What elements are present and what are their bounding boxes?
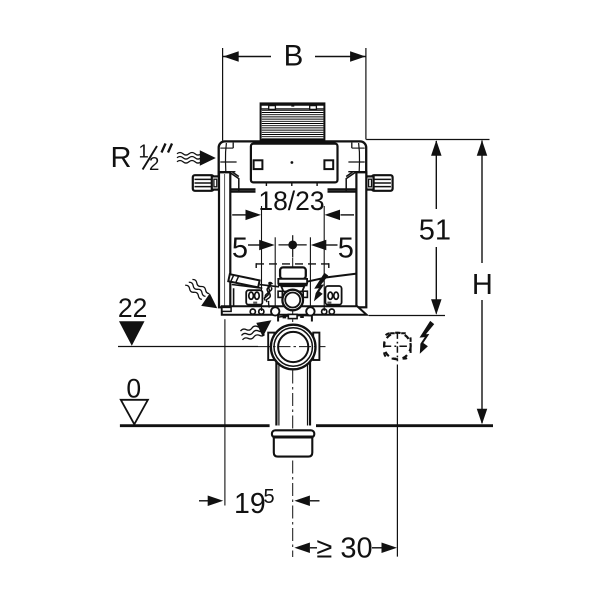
fill valve supply arm	[228, 274, 259, 287]
protection box striped body	[261, 103, 325, 140]
dimension B line and arrowheads	[223, 51, 366, 62]
service panel center dot	[291, 161, 294, 164]
svg-text:51: 51	[419, 214, 451, 246]
frame bottom rail	[222, 306, 367, 314]
mechanism shelf left	[232, 285, 279, 307]
dimension 18/23 right arrow	[325, 210, 355, 221]
service panel screw square left	[254, 160, 263, 169]
flush valve flange	[278, 279, 308, 285]
cistern head corner wedge left	[229, 172, 239, 191]
dimension 19.5 arrows	[199, 496, 320, 507]
dimension 5 right arrow	[311, 240, 338, 251]
extension line 19.5 left (wall)	[224, 319, 226, 505]
service panel bottom ticks	[266, 183, 317, 187]
main centerline	[292, 258, 294, 557]
level marker 0 triangle	[121, 400, 148, 425]
cistern head shoulder right	[348, 171, 365, 173]
svg-text:H: H	[472, 269, 493, 301]
wavy arrow to flush pipe	[241, 320, 272, 340]
label 18/23	[256, 186, 328, 216]
svg-text:1: 1	[139, 141, 149, 162]
flush valve side wing left	[278, 291, 282, 297]
flush pipe walls	[276, 361, 310, 426]
label R 1/2 inch	[111, 141, 173, 175]
label 19 superscript 5	[234, 486, 275, 520]
svg-text:≥ 30: ≥ 30	[316, 533, 372, 565]
electrical conduit dashed circle	[384, 332, 412, 361]
bend horizontal centerline	[258, 346, 326, 348]
cistern head bottom inner line	[221, 188, 364, 190]
lightning bolt conduit	[420, 321, 435, 354]
wavy arrow to frame corner	[185, 279, 217, 308]
wall bracket right clamp block	[366, 176, 373, 189]
dimension 5 left arrow	[248, 240, 275, 251]
flush valve outlet ring	[282, 290, 303, 311]
pipe coupler lip	[272, 430, 314, 437]
flush valve side wing right	[303, 291, 307, 297]
service access panel	[251, 144, 338, 183]
cistern head corner wedge right	[346, 172, 356, 191]
wall bracket left body	[193, 175, 214, 191]
svg-text:B: B	[284, 39, 304, 72]
wavy arrow to water supply	[177, 150, 216, 165]
extension line 5 right	[309, 237, 311, 308]
mounting plate 00 left	[246, 290, 262, 305]
svg-text:5: 5	[264, 486, 275, 508]
mechanism shelf right	[307, 274, 357, 282]
svg-text:18/23: 18/23	[258, 186, 324, 216]
protection box left notch	[269, 106, 276, 110]
wall bracket left clamp block	[212, 176, 219, 189]
cistern head outline	[219, 141, 367, 191]
cable scribble	[264, 282, 272, 307]
flush valve body	[281, 286, 304, 291]
cistern head inner wall right	[348, 143, 364, 172]
frame rail right	[356, 172, 366, 307]
service panel screw square right	[324, 160, 333, 169]
bottom rail fixing holes	[250, 307, 334, 315]
pipe coupler body	[274, 438, 313, 457]
outlet connector	[278, 314, 312, 321]
svg-text:5: 5	[232, 233, 248, 265]
lightning bolt tank	[314, 273, 328, 302]
flush bend ring	[271, 325, 316, 370]
conduit vertical line	[396, 365, 398, 557]
svg-text:0: 0	[126, 373, 141, 403]
svg-text:R: R	[111, 142, 132, 174]
level 22 reference line	[118, 346, 258, 348]
extension line 18/23 left	[261, 206, 263, 311]
flush valve cap	[280, 267, 306, 279]
extension line 18/23 right	[323, 206, 325, 311]
svg-text:2: 2	[149, 153, 159, 174]
center point marker	[279, 235, 307, 257]
dimension H line and arrowheads	[477, 140, 488, 424]
level marker 22 triangle	[119, 321, 145, 345]
dimension B extension line right	[365, 48, 367, 140]
mounting plate 00 right	[325, 286, 341, 305]
flush bend clamp lug left	[268, 333, 274, 360]
frame rail left	[219, 172, 230, 307]
floor line	[120, 424, 493, 427]
protection box right notch	[310, 106, 317, 110]
svg-text:19: 19	[234, 488, 266, 520]
svg-text:22: 22	[118, 293, 147, 323]
reference line tank top level	[366, 139, 489, 141]
flush bend clamp lug right	[313, 333, 319, 360]
svg-text:5: 5	[338, 233, 354, 265]
reference line frame bottom level	[369, 315, 445, 317]
extension line 5 left	[274, 237, 276, 308]
protection box center tick	[291, 105, 294, 107]
wall bracket right body	[372, 175, 393, 191]
dimension 18/23 left arrow	[232, 210, 261, 221]
cistern head inner wall left	[220, 143, 236, 172]
dimension B extension line left	[222, 48, 224, 141]
cistern head shoulder left	[220, 171, 236, 173]
dimension 51 line and arrowheads	[431, 140, 442, 315]
dimension >=30 arrows	[294, 543, 397, 554]
dashed ceramic outline bracket	[256, 263, 329, 268]
